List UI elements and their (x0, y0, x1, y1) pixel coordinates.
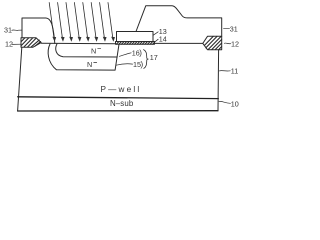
svg-text:14: 14 (159, 34, 167, 43)
ion implantation arrows (49, 3, 113, 39)
N- region 16 (upper dish) (56, 44, 117, 57)
wire surface line left segment (41, 42, 116, 45)
svg-text:31: 31 (230, 25, 238, 34)
N- region 15 (lower dish) (48, 44, 115, 70)
minus sign of upper N- (98, 48, 101, 50)
svg-text:N–sub: N–sub (110, 99, 134, 108)
photoresist 31 (right block outline) (136, 6, 222, 37)
leader for label 11 (219, 70, 230, 72)
brace for label 17 (144, 50, 149, 69)
leader for label 16 (119, 53, 131, 57)
leader for label 14 (154, 39, 158, 43)
svg-text:10: 10 (231, 99, 239, 108)
substrate body bottom edge (18, 110, 218, 112)
svg-text:12: 12 (231, 40, 239, 49)
gate electrode 13 (117, 32, 154, 42)
substrate body left edge (18, 47, 22, 111)
leader for label 12 right (224, 42, 231, 45)
svg-text:31: 31 (4, 26, 12, 35)
wire N-sub top boundary (18, 97, 219, 99)
svg-text:11: 11 (231, 66, 238, 75)
leader for label 31 right (224, 28, 230, 30)
svg-text:17: 17 (150, 53, 158, 62)
svg-text:): ) (141, 60, 144, 69)
svg-text:P—well: P—well (101, 85, 142, 94)
leader for label 12 left (12, 43, 21, 45)
hatch strokes left oxide (21, 38, 40, 47)
leader for label 13 (153, 32, 158, 36)
leader for label 31 left (12, 29, 22, 31)
svg-text:N: N (91, 46, 96, 55)
photoresist 31 (left block outline) (22, 18, 55, 44)
hatch strokes right oxide (205, 36, 222, 49)
field oxide 12 (left hatched pentagon) (21, 38, 41, 47)
svg-text:12: 12 (5, 40, 13, 49)
leader for label 10 (219, 101, 231, 103)
leader for label 15 (116, 64, 132, 65)
svg-text:N: N (87, 60, 92, 69)
svg-text:): ) (139, 49, 142, 58)
gate oxide 14 (hatched thin layer) (116, 42, 155, 45)
wire junction edge under gate (right edge of N- regions) (115, 44, 119, 70)
substrate body right edge (217, 50, 220, 111)
minus sign of lower N- (94, 62, 97, 64)
field oxide 12 (right hatched pentagon) (203, 36, 222, 49)
wire surface line right segment (154, 42, 203, 44)
